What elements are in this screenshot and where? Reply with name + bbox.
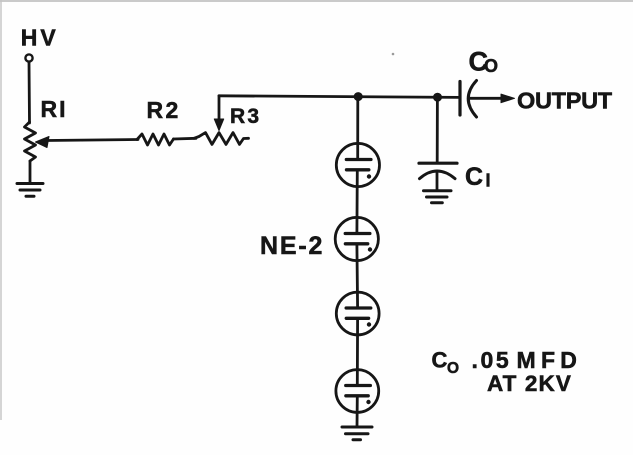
wire R3 wiper vertical (218, 96, 221, 119)
svg-text:C: C (465, 163, 483, 191)
wire C0 to output arrow (470, 97, 503, 100)
wire R1 to ground (29, 161, 32, 183)
neon lamp V3 (NE-2) (336, 292, 379, 335)
svg-text:R2: R2 (147, 97, 181, 123)
resistor R1 (25, 122, 36, 161)
node HV terminal (25, 54, 32, 61)
svg-text:OUTPUT: OUTPUT (517, 88, 613, 114)
scan border top edge (0, 0, 633, 2)
resistor R3 (194, 133, 249, 145)
label C0 (469, 47, 499, 77)
svg-text:O: O (447, 360, 459, 377)
neon lamp V1 (NE-2) (336, 143, 379, 186)
label C0 value .05 MFD (432, 347, 583, 377)
wire R2 to R3 (174, 137, 197, 140)
wire V2 to V3 (355, 244, 359, 308)
svg-text:O: O (484, 56, 498, 76)
capacitor C1 (419, 163, 457, 190)
resistor R2 (137, 134, 174, 145)
node junction B (434, 93, 442, 101)
arrow on R3 wiper (214, 119, 223, 131)
scan border left edge (0, 0, 2, 420)
wire junction B to C1 (436, 97, 439, 161)
wiper arrow into R1 (36, 137, 50, 148)
ground below C1 (424, 191, 452, 203)
svg-text:MFD: MFD (517, 347, 583, 373)
svg-text:R3: R3 (230, 105, 261, 128)
ground below R1 (17, 184, 43, 197)
wire HV to R1 (28, 62, 31, 123)
wire V4 to ground (356, 396, 359, 427)
svg-text:AT 2KV: AT 2KV (487, 371, 572, 396)
label C1 (465, 163, 491, 191)
svg-text:HV: HV (21, 24, 59, 50)
svg-text:I: I (486, 171, 491, 191)
svg-text:C: C (432, 347, 448, 372)
svg-text:NE-2: NE-2 (260, 232, 324, 260)
neon lamp V2 (NE-2) (335, 217, 378, 260)
wire V1 to V2 (355, 170, 358, 234)
capacitor C0 (460, 81, 477, 118)
speck (392, 53, 395, 56)
node junction A (354, 93, 362, 101)
svg-text:.05: .05 (472, 347, 512, 373)
neon lamp V4 (NE-2) (336, 370, 379, 413)
wire R1 wiper to R2 (46, 140, 138, 141)
svg-text:RI: RI (41, 96, 68, 122)
ground below V4 (342, 427, 372, 440)
arrow to OUTPUT (501, 94, 515, 103)
wire top bus (219, 96, 459, 98)
wire V3 to V4 (356, 319, 359, 386)
wire junction A to lamp V1 (356, 97, 359, 159)
